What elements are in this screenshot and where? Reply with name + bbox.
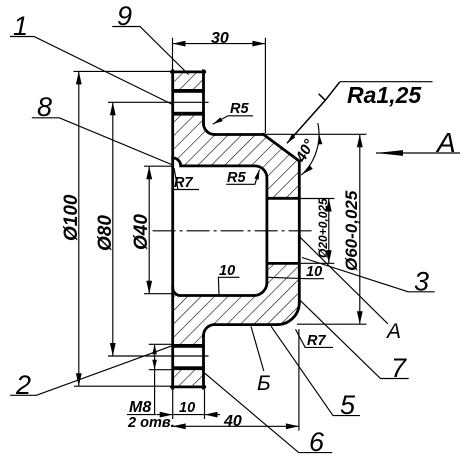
extension line D20 top	[301, 198, 334, 200]
dimension line D60	[359, 134, 361, 324]
leader R5 cavity	[226, 170, 259, 185]
extension line D60 bottom	[297, 323, 367, 325]
leader 6	[205, 373, 333, 453]
svg-text:30: 30	[211, 30, 229, 47]
leader R7 bottom	[296, 329, 334, 347]
top face outline	[172, 71, 205, 74]
extension line D20 bottom	[301, 262, 334, 264]
svg-text:6: 6	[309, 427, 325, 457]
view arrow A shaft	[376, 152, 460, 154]
leader 1	[10, 37, 173, 105]
extension line 30 left	[172, 38, 174, 70]
bore top edge	[267, 197, 299, 200]
extension line D60 top	[265, 133, 367, 135]
left face outline	[171, 71, 174, 388]
svg-text:М8: М8	[129, 399, 151, 416]
svg-text:Ø80: Ø80	[95, 215, 116, 251]
hub bottom surface	[215, 323, 278, 326]
chamfer 40deg	[264, 135, 300, 162]
extension line D100 bottom	[74, 385, 172, 387]
svg-text:R5: R5	[227, 170, 246, 186]
svg-text:10: 10	[179, 400, 195, 416]
fillet R5 hub bottom	[204, 325, 215, 336]
svg-text:Ø100: Ø100	[61, 194, 82, 241]
leader R7 top	[172, 168, 199, 190]
svg-text:R5: R5	[230, 101, 249, 117]
M8 thread bands top hole	[172, 89, 205, 370]
leader B cyrillic	[251, 326, 264, 371]
dimension line D40	[148, 166, 150, 294]
svg-text:R7: R7	[174, 175, 193, 191]
svg-text:А: А	[385, 320, 401, 343]
extension line M8 bottom	[149, 369, 172, 371]
extension line D40 bottom	[144, 293, 172, 295]
roughness tail	[287, 82, 340, 143]
extension line D40 top	[144, 165, 172, 167]
underline M8	[127, 414, 156, 416]
svg-text:10: 10	[306, 264, 322, 280]
extension line D100 top	[74, 70, 172, 72]
hub right face	[298, 161, 301, 303]
svg-text:7: 7	[391, 353, 407, 383]
round R7 bottom corner	[277, 303, 299, 325]
svg-text:R7: R7	[307, 333, 326, 349]
extension line 10 left	[172, 390, 174, 420]
hatch top flange box	[173, 73, 204, 89]
svg-text:А: А	[435, 127, 456, 158]
angle arc 40deg	[301, 123, 319, 175]
leader 10 left	[218, 277, 239, 295]
centerline main axis	[153, 230, 316, 232]
svg-text:Ra1,25: Ra1,25	[347, 82, 422, 108]
dimension line 40	[173, 425, 299, 427]
svg-text:3: 3	[414, 267, 429, 297]
extension line M8 top	[149, 343, 172, 345]
svg-text:10: 10	[219, 263, 235, 279]
fillet R5 hub top	[204, 124, 215, 135]
extension line 10 right	[204, 390, 206, 420]
hatch bottom flange box	[173, 370, 204, 386]
bore bottom edge	[267, 262, 299, 265]
roughness overline	[340, 81, 433, 83]
dimension line 10	[157, 414, 221, 416]
svg-text:Б: Б	[257, 372, 271, 395]
hub top surface	[215, 133, 264, 136]
hatch lower body section	[173, 263, 300, 344]
svg-text:40: 40	[223, 413, 242, 430]
dimension line 30	[173, 43, 266, 45]
svg-text:2: 2	[15, 370, 31, 400]
view arrow A head	[376, 150, 403, 156]
extension line 40 right	[298, 329, 300, 431]
leader A small	[300, 237, 388, 323]
dimension line M8 with stem	[154, 344, 156, 414]
cavity outline	[173, 158, 267, 296]
leader 8	[32, 118, 173, 165]
svg-text:Ø60-0,025: Ø60-0,025	[342, 190, 361, 271]
svg-text:9: 9	[117, 1, 132, 31]
leader 9	[112, 27, 188, 75]
svg-text:Ø40: Ø40	[131, 214, 152, 250]
flange right edge bottom	[202, 336, 205, 389]
svg-text:Ø20+0,025: Ø20+0,025	[316, 198, 330, 258]
flange right edge top	[202, 71, 205, 124]
hatch upper body section	[173, 116, 300, 199]
leader 2	[10, 346, 172, 396]
svg-text:5: 5	[340, 390, 356, 420]
leader 7	[300, 300, 409, 379]
leader 5	[271, 326, 360, 415]
svg-text:8: 8	[37, 92, 52, 122]
svg-text:1: 1	[13, 11, 28, 41]
arrowheads	[76, 41, 403, 430]
leader 3	[302, 258, 435, 292]
leader 10 right	[268, 277, 324, 278]
axis M8 hole top	[108, 101, 209, 103]
svg-text:2 отв.: 2 отв.	[127, 415, 175, 431]
axis M8 hole bottom	[108, 355, 209, 357]
extension line 30 right	[264, 38, 266, 133]
dimension line D20	[328, 199, 330, 264]
leader R5 top	[213, 116, 253, 124]
dimension line D100	[78, 71, 80, 386]
bottom face outline	[172, 385, 205, 388]
dimension line D80	[112, 102, 114, 356]
